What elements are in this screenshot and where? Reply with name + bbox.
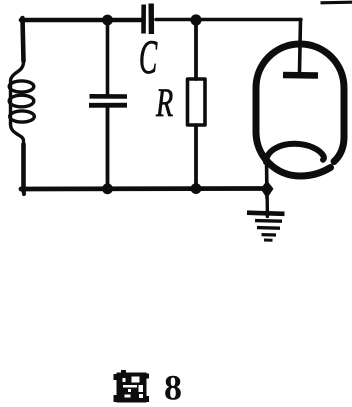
wire: R branch lower vertical <box>194 125 198 189</box>
scan artifact bar top-right <box>321 1 352 5</box>
node: junction bottom of C2 branch <box>102 183 113 194</box>
tube V1 cathode arc <box>266 144 324 162</box>
tube V1 grid bar <box>283 72 318 79</box>
wire: corner tail bottom-left <box>22 189 27 194</box>
wire: C2 branch upper vertical <box>106 20 110 94</box>
capacitor C2 (tank, parallel) <box>89 96 127 105</box>
wire: R branch upper vertical <box>194 18 198 79</box>
wire: C2 branch lower vertical <box>106 107 110 189</box>
wire: top horizontal left segment (tank top to capacitor C) <box>21 18 141 23</box>
svg-text:R: R <box>155 80 173 125</box>
wire: ground stub <box>266 198 270 217</box>
tube V1 envelope (with gap lower right) <box>256 44 344 176</box>
caption glyph 図 <box>114 370 150 403</box>
wire: left vertical upper (to coil) <box>23 18 24 61</box>
svg-text:8: 8 <box>164 368 182 407</box>
node: junction bottom of R branch <box>191 183 202 194</box>
resistor R (box) <box>188 79 206 125</box>
wire: left vertical lower (coil to bottom rail) <box>21 144 26 191</box>
node: junction top of R branch <box>190 14 201 25</box>
wire: cathode lead down <box>265 160 269 198</box>
node: junction top of C2 branch <box>102 15 113 26</box>
wire: grid lead vertical into tube <box>300 20 301 73</box>
svg-text:C: C <box>139 33 158 84</box>
ground symbol <box>247 213 285 241</box>
wire: top horizontal right segment (capacitor C to grid lead corner) <box>156 18 301 22</box>
inductor L1 (tank coil) <box>9 62 34 141</box>
capacitor C (series, top) <box>144 4 152 35</box>
wire: bottom horizontal rail <box>21 186 268 191</box>
node: cathode/ground junction <box>261 181 274 199</box>
